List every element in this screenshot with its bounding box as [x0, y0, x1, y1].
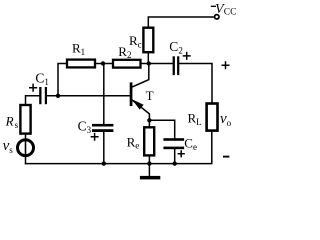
wire base: [47, 95, 130, 97]
resistor Rc: [143, 28, 153, 53]
minus output: [223, 156, 229, 158]
wire Rs bottom lead: [25, 134, 27, 140]
resistor R2: [113, 60, 141, 68]
plus output: [222, 61, 230, 69]
node R1/R2 junction: [101, 61, 105, 65]
node Ce bottom junction: [173, 161, 177, 165]
wire Rc bottom lead: [147, 52, 149, 63]
wire C3 bottom lead: [103, 132, 105, 164]
wire ground stub: [148, 164, 150, 176]
svg-text:CC: CC: [224, 8, 237, 18]
wire collector: [131, 64, 149, 88]
wire emitter: [131, 99, 149, 120]
wire emitter node to Ce: [149, 120, 174, 138]
source vs: [18, 140, 34, 156]
plus C2: [183, 52, 191, 60]
node ground junction: [147, 161, 151, 165]
svg-text:R: R: [5, 114, 14, 129]
plus C3: [91, 133, 99, 141]
wire C3 top lead: [103, 64, 105, 124]
transistor T emitter arrow (PNP): [132, 99, 144, 109]
resistor R1: [67, 60, 95, 68]
capacitor C3: [92, 124, 113, 132]
wire Ce bottom lead: [174, 149, 176, 164]
capacitor Ce: [163, 138, 184, 149]
node B junction: [56, 94, 60, 98]
node emitter junction: [147, 118, 151, 122]
ground: [140, 176, 160, 180]
label -Vcc: [211, 2, 237, 18]
resistor Re: [144, 127, 154, 155]
wire C2 to RL top: [179, 64, 212, 104]
wire R1 to R2: [95, 63, 113, 65]
resistor Rs: [20, 105, 30, 134]
wire Re top lead: [148, 120, 150, 127]
plus Ce: [178, 150, 185, 157]
wire top rail to -Vcc: [148, 17, 214, 28]
resistor RL: [207, 104, 218, 131]
node collector junction: [147, 61, 151, 65]
capacitor C1: [39, 87, 47, 104]
node C3 bottom junction: [102, 161, 106, 165]
wire Rs top lead to C1: [26, 96, 40, 105]
svg-text:s: s: [15, 120, 19, 130]
svg-text:T: T: [146, 88, 154, 103]
wire node B riser and R1 left lead: [58, 64, 67, 96]
capacitor C2: [173, 56, 180, 75]
terminal -Vcc: [215, 15, 219, 19]
wire vs bottom lead: [25, 156, 27, 164]
wire Re bottom lead: [148, 155, 150, 163]
wire R2 to C2: [141, 63, 173, 65]
wire bottom rail: [26, 131, 212, 164]
plus C1: [29, 84, 37, 92]
transistor T bar: [130, 82, 133, 106]
